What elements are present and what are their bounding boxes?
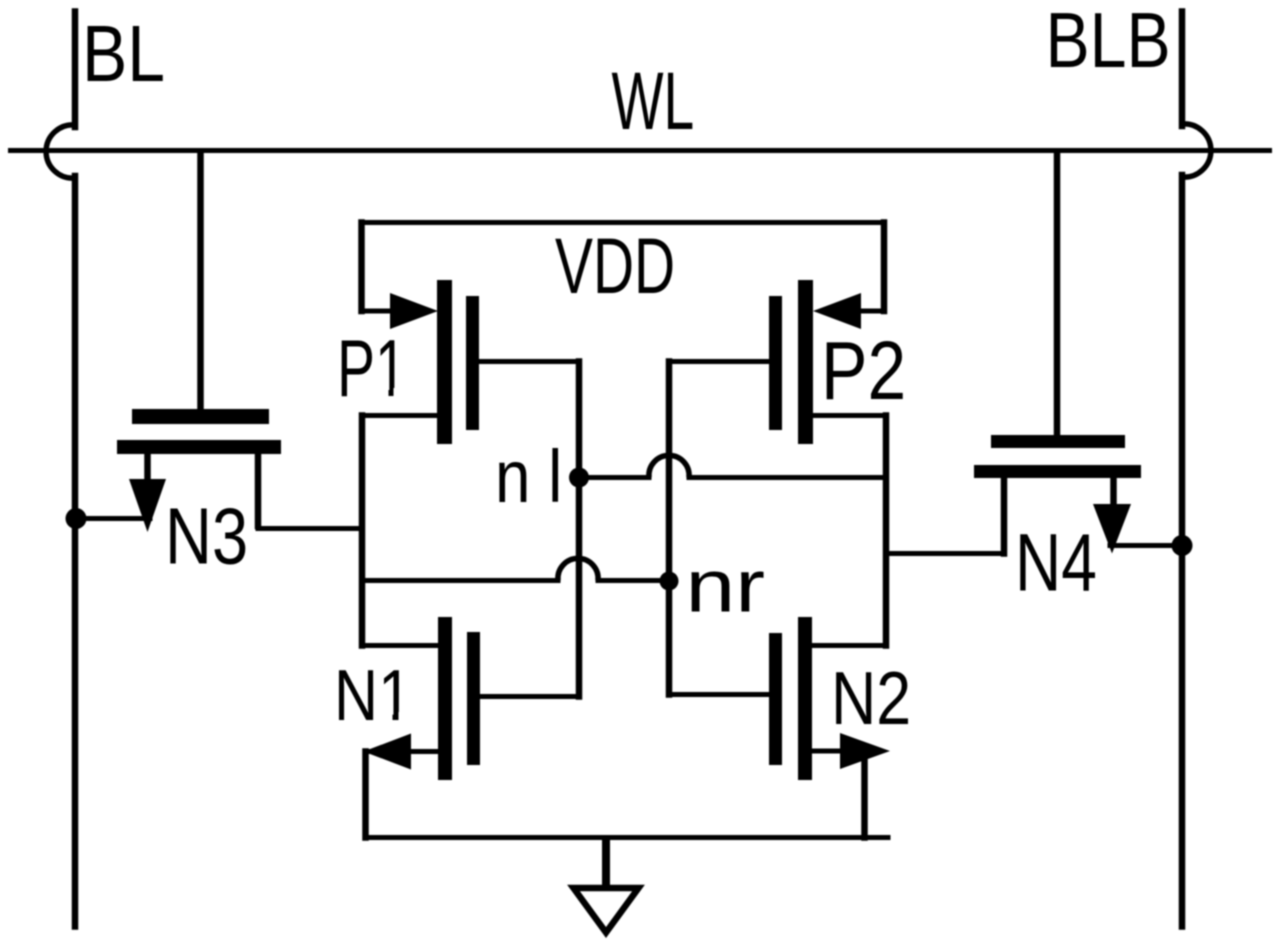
wire WL to N4 gate (1054, 153, 1061, 435)
bitline BL upper segment (72, 12, 79, 128)
transistor N3 gate bar (132, 409, 269, 424)
svg-text:WL: WL (612, 56, 695, 147)
wire nl gate column vertical (576, 362, 583, 697)
wire N2 source horizontal (812, 749, 865, 754)
svg-text:BL: BL (82, 9, 165, 98)
transistor P1 channel bar (437, 280, 452, 444)
transistor N1 gate bar (467, 632, 480, 765)
hop of nl wire over nr column (649, 455, 689, 477)
wire N2 gate (669, 692, 769, 697)
wire VDD rail (362, 220, 885, 225)
svg-text:P1: P1 (337, 324, 407, 414)
bitline BLB lower segment (1179, 175, 1186, 927)
wire node nr horizontal right segment (598, 578, 669, 583)
wire VDD rail right vertical (881, 223, 888, 312)
wire VDD to P1 source (362, 309, 401, 314)
hop of BL over WL (46, 125, 75, 178)
node nl junction dot (569, 468, 589, 488)
wire N4 source to BLB (1110, 543, 1182, 548)
transistor N4 gate bar (991, 435, 1125, 448)
wire P2 drain (813, 413, 886, 418)
junction dot BL to N3 (66, 508, 87, 529)
transistor N1 source arrow (364, 734, 412, 770)
wire N2 source vertical (861, 751, 868, 838)
wire N3 source stub (144, 452, 151, 488)
hop of BLB over WL (1182, 124, 1211, 177)
node nr junction dot (660, 572, 679, 591)
wire right inverter output column (883, 416, 890, 646)
hop of nr wire over nl column (558, 558, 598, 580)
wire N4 source stub (1110, 477, 1117, 508)
mask serif foot of digit 1 in N1 (381, 712, 393, 722)
wire WL to N3 gate (197, 153, 204, 409)
wire WL word line (11, 148, 1270, 153)
svg-text:BLB: BLB (1046, 0, 1171, 84)
wire N1 source horizontal (366, 749, 439, 754)
wire N3 drain horizontal to left column (258, 526, 362, 531)
wire nr gate column vertical (666, 362, 673, 695)
wire N4 drain horizontal (886, 551, 1004, 556)
transistor N2 channel bar (798, 617, 812, 780)
wire N4 drain stub (1001, 477, 1008, 554)
ground symbol (574, 888, 639, 933)
transistor P1 source arrow (390, 293, 438, 329)
wire left inverter output column (359, 416, 366, 646)
wire VDD to P2 source (850, 309, 884, 314)
wire N3 source to BL (76, 516, 150, 521)
svg-text:N4: N4 (1015, 519, 1097, 609)
wire N2 drain (812, 643, 886, 648)
svg-text:N1: N1 (334, 655, 412, 736)
wire ground rail (366, 835, 889, 840)
wire ground stub (602, 838, 610, 886)
wire P2 gate (669, 359, 769, 364)
wire node nl horizontal right segment (689, 475, 886, 480)
wire VDD rail left vertical (358, 223, 365, 312)
wire P1 drain (362, 413, 437, 418)
transistor N3 source arrow (129, 479, 166, 532)
svg-text:nr: nr (686, 545, 766, 628)
junction dot BLB to N4 (1172, 535, 1193, 556)
wire P1 gate (479, 359, 579, 364)
transistor N2 gate bar (769, 633, 782, 765)
transistor P2 channel bar (798, 280, 813, 444)
transistor N4 source arrow (1093, 504, 1131, 554)
transistor P2 source arrow (813, 293, 861, 329)
bitline BL lower segment (72, 176, 79, 927)
transistor P2 gate bar (769, 296, 782, 430)
svg-text:n l: n l (495, 435, 562, 518)
bitline BLB upper segment (1179, 12, 1186, 127)
wire node nl horizontal left segment (579, 475, 649, 480)
svg-text:N2: N2 (831, 657, 911, 741)
svg-text:P2: P2 (821, 325, 906, 417)
wire N3 drain stub (255, 452, 262, 526)
mask serif foot of digit 1 in P1 (377, 388, 389, 398)
wire N1 gate (480, 694, 579, 699)
wire N1 source vertical (362, 752, 369, 838)
transistor N2 source arrow (840, 733, 890, 769)
wire N1 drain (362, 643, 438, 648)
transistor N3 channel bar (117, 440, 281, 454)
transistor N1 channel bar (438, 617, 452, 780)
svg-text:VDD: VDD (555, 222, 675, 310)
transistor N4 channel bar (974, 465, 1141, 478)
svg-text:N3: N3 (165, 492, 248, 581)
wire node nr horizontal left segment (362, 578, 558, 583)
transistor P1 gate bar (466, 296, 479, 430)
